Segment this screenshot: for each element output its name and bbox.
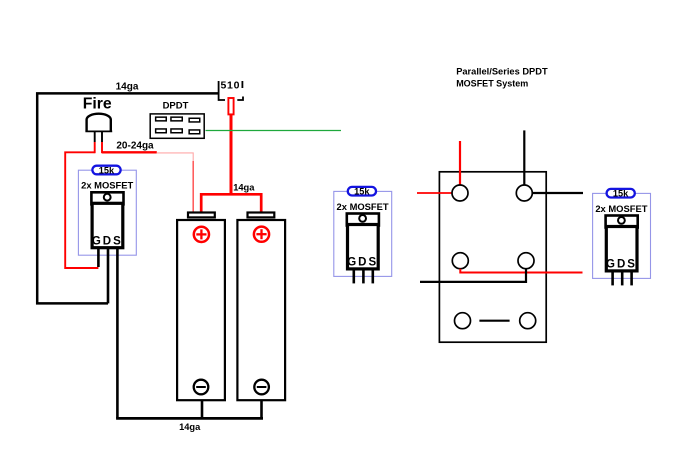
fuse holder 510: left bracket <box>219 81 225 100</box>
battery B2 body <box>237 220 285 400</box>
svg-text:510: 510 <box>220 80 240 92</box>
svg-text:15k: 15k <box>613 189 629 199</box>
pin G (U1) <box>97 249 100 267</box>
resistor 15k (U2 capsule) <box>348 187 376 196</box>
pin S (U1) <box>116 249 119 418</box>
wire: 14ga main loop (black, top/left/bottom to drain) <box>37 93 218 303</box>
resistor 510 (red body) <box>228 98 233 114</box>
module U2 enclosure (blue box) <box>334 191 392 276</box>
wire: red step from S2 mid-left to right module <box>460 269 582 273</box>
terminal S2 top-left <box>452 185 468 201</box>
wire: red from resistor down <box>230 115 233 194</box>
pin D (U1) <box>107 249 110 303</box>
pin S (U3) <box>630 272 633 285</box>
svg-text:15k: 15k <box>99 166 115 176</box>
battery B1 body <box>177 220 225 400</box>
module U1 (2x MOSFET block) <box>78 166 136 419</box>
wire: 20-24ga red segment <box>102 151 157 153</box>
svg-text:GDS: GDS <box>606 259 637 271</box>
svg-text:DPDT: DPDT <box>163 100 189 111</box>
module U3 (2x MOSFET block) <box>593 189 651 286</box>
wire: red split to battery + terminals <box>201 194 261 212</box>
terminal S2 top-right <box>516 185 532 201</box>
wire: red gate wire (left loop to G pin) <box>65 152 98 268</box>
switch DPDT (connector body) <box>150 114 204 138</box>
transistor Q3 tab <box>606 216 638 228</box>
module U3 enclosure (blue box) <box>593 193 651 278</box>
terminal S2 bottom-right <box>520 313 536 329</box>
fuse holder 510: right top tick <box>241 81 243 88</box>
svg-text:Fire: Fire <box>83 96 112 113</box>
switch Fire (push button dome) <box>87 114 111 132</box>
svg-text:20-24ga: 20-24ga <box>116 140 154 151</box>
transistor Q2 tab <box>347 214 379 226</box>
transistor Q1 body <box>92 203 123 247</box>
wire: link between S2 bottom terminals <box>479 320 509 322</box>
transistor Q1 tab <box>91 192 123 204</box>
pin D (U3) <box>621 272 624 285</box>
svg-text:2x MOSFET: 2x MOSFET <box>337 201 389 212</box>
battery B2 cap <box>248 213 275 218</box>
switch S2 box (relay body) <box>439 172 546 342</box>
wire: black horizontal from S2 top-right terminal <box>532 192 583 194</box>
terminal S2 bottom-left <box>455 313 471 329</box>
resistor 15k (U1 capsule) <box>92 166 120 175</box>
pin D (U2) <box>362 270 365 283</box>
wire: red horizontal into S2 top-left terminal <box>417 192 452 194</box>
terminal S2 mid-right <box>518 253 534 269</box>
battery B1 - terminal <box>194 380 209 395</box>
switch DPDT pins row 1 <box>156 117 167 121</box>
svg-text:Parallel/Series DPDT: Parallel/Series DPDT <box>456 67 548 77</box>
svg-text:14ga: 14ga <box>179 422 201 432</box>
svg-text:GDS: GDS <box>347 257 378 269</box>
switch DPDT pins row 2 <box>156 129 167 133</box>
pin S (U2) <box>371 270 374 283</box>
resistor 15k (U3 capsule) <box>607 189 635 198</box>
battery B2 + terminal <box>254 227 269 242</box>
svg-text:MOSFET System: MOSFET System <box>456 78 528 88</box>
battery B2 stub <box>260 400 263 418</box>
svg-text:GDS: GDS <box>92 236 123 248</box>
wire: black vertical into S2 top-right <box>523 130 525 185</box>
fuse holder 510: right bottom bracket <box>237 97 243 101</box>
pin G (U3) <box>611 272 614 285</box>
svg-text:14ga: 14ga <box>116 82 139 93</box>
pin G (U2) <box>352 270 355 283</box>
svg-text:2x MOSFET: 2x MOSFET <box>595 203 647 214</box>
wire: black step from S2 mid-right to left <box>420 269 526 282</box>
wire: fire button legs (red) <box>94 142 96 153</box>
module U2 (2x MOSFET block) <box>334 187 392 284</box>
transistor Q3 body <box>606 227 637 271</box>
battery B1 cap <box>188 213 215 218</box>
battery B2 - terminal <box>254 380 269 395</box>
wire: fire button legs (black) <box>94 132 96 142</box>
battery B1 + terminal <box>194 227 209 242</box>
wire: red vertical into S2 top-left <box>459 141 461 185</box>
wire: pink signal wire to battery 1 + <box>157 153 193 161</box>
svg-text:2x MOSFET: 2x MOSFET <box>81 180 133 191</box>
terminal S2 mid-left <box>452 253 468 269</box>
battery B1 stub <box>201 400 204 418</box>
wire: 14ga bottom (black) <box>116 417 263 420</box>
svg-text:15k: 15k <box>354 187 370 197</box>
wire: green <box>206 130 342 132</box>
module U1 enclosure (blue box) <box>78 170 136 255</box>
transistor Q2 body <box>348 225 379 269</box>
svg-text:14ga: 14ga <box>233 183 255 193</box>
